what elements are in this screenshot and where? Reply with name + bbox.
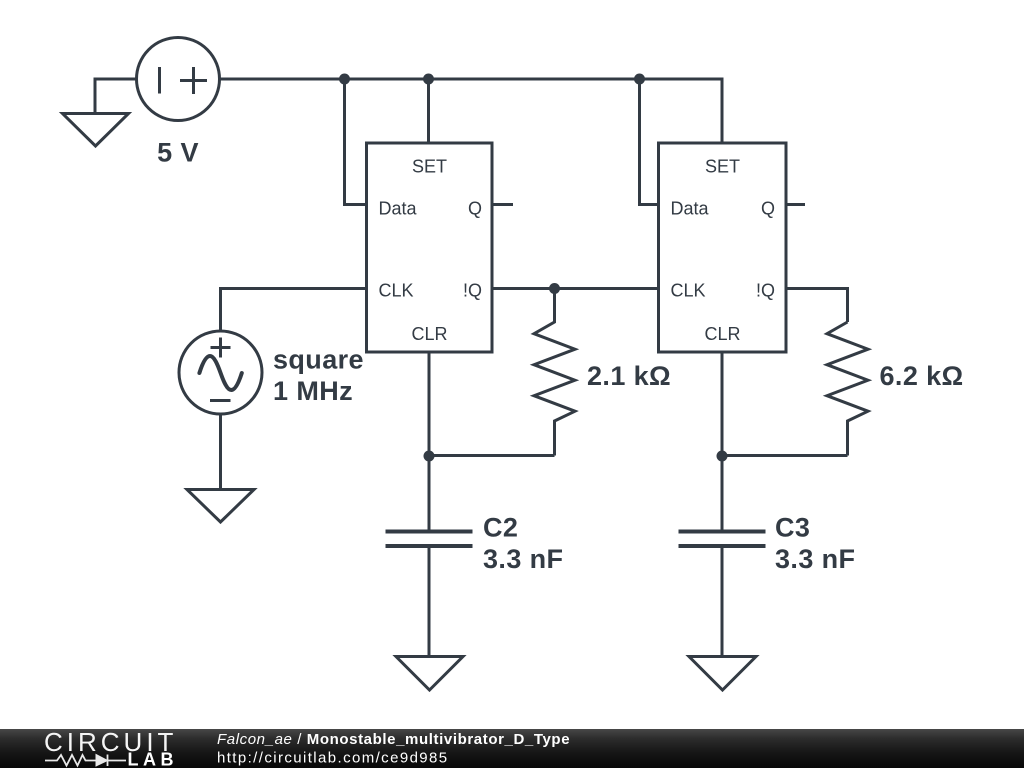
svg-text:6.2 kΩ: 6.2 kΩ xyxy=(880,361,964,391)
voltage source V1 xyxy=(137,38,220,121)
node E xyxy=(424,451,435,462)
svg-text:CLK: CLK xyxy=(671,281,706,301)
svg-text:http://circuitlab.com/ce9d985: http://circuitlab.com/ce9d985 xyxy=(217,750,449,767)
svg-text:Data: Data xyxy=(671,199,710,219)
svg-text:2.1 kΩ: 2.1 kΩ xyxy=(587,361,671,391)
wire V2 to ground xyxy=(219,414,222,488)
wire !Q U1 to CLK U2 xyxy=(492,287,659,290)
capacitor C2 xyxy=(386,532,473,547)
wire R2 bottom xyxy=(722,454,848,457)
node F xyxy=(717,451,728,462)
svg-text:3.3 nF: 3.3 nF xyxy=(483,544,563,574)
node D xyxy=(549,283,560,294)
flip-flop U1 xyxy=(367,143,493,352)
wire Q stub U2 xyxy=(786,203,805,206)
footer bar xyxy=(0,729,1024,768)
ground G3 xyxy=(396,657,463,691)
node B xyxy=(423,74,434,85)
svg-text:5 V: 5 V xyxy=(157,138,199,168)
source V2 square wave xyxy=(179,331,262,414)
wire node E to C2 xyxy=(428,456,431,530)
wire CLK U1 xyxy=(221,289,367,332)
svg-text:!Q: !Q xyxy=(463,281,482,301)
svg-text:CLK: CLK xyxy=(379,281,414,301)
svg-text:Data: Data xyxy=(379,199,418,219)
node A xyxy=(339,74,350,85)
svg-text:C3: C3 xyxy=(775,513,810,543)
svg-text:Q: Q xyxy=(761,199,775,219)
svg-text:square: square xyxy=(273,345,364,375)
svg-text:CLR: CLR xyxy=(704,324,740,344)
wire top rail xyxy=(220,78,723,81)
svg-text:Falcon_ae / Monostable_multivi: Falcon_ae / Monostable_multivibrator_D_T… xyxy=(217,731,570,748)
wire R1 bottom xyxy=(429,454,555,457)
logo zigzag diode xyxy=(45,755,126,767)
wire Data U2 xyxy=(640,79,659,205)
svg-text:1 MHz: 1 MHz xyxy=(273,376,353,406)
svg-text:CLR: CLR xyxy=(411,324,447,344)
wire SET U1 xyxy=(427,79,430,143)
wire !Q U2 xyxy=(786,289,848,323)
wire CLR U1 down xyxy=(428,352,431,456)
wire node F to C3 xyxy=(721,456,724,530)
svg-text:!Q: !Q xyxy=(756,281,775,301)
node C xyxy=(634,74,645,85)
svg-text:3.3 nF: 3.3 nF xyxy=(775,544,855,574)
resistor R2 xyxy=(827,322,868,456)
svg-text:SET: SET xyxy=(705,157,740,177)
ground G4 xyxy=(689,657,756,691)
wire V1 to ground xyxy=(95,79,137,112)
capacitor C3 xyxy=(679,532,766,547)
svg-text:SET: SET xyxy=(412,157,447,177)
wire CLR U2 down xyxy=(721,352,724,456)
ground G1 xyxy=(63,114,129,147)
flip-flop U2 xyxy=(659,143,787,352)
svg-text:LAB: LAB xyxy=(128,750,179,768)
svg-text:Q: Q xyxy=(468,199,482,219)
wire Data U1 xyxy=(345,79,367,205)
svg-text:C2: C2 xyxy=(483,513,518,543)
wire C2 to ground xyxy=(428,548,431,655)
wire SET U2 xyxy=(721,78,724,144)
ground G2 xyxy=(187,490,254,523)
resistor R1 xyxy=(534,289,575,456)
wire C3 to ground xyxy=(721,548,724,655)
wire Q stub U1 xyxy=(492,203,513,206)
